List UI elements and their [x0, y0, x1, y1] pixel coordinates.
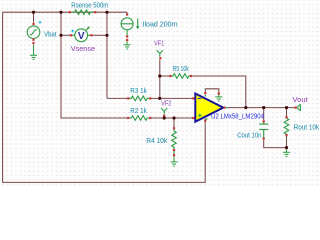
- svg-text:R4 10k: R4 10k: [146, 136, 167, 145]
- svg-text:Cout 10n: Cout 10n: [237, 130, 261, 139]
- svg-text:Vout: Vout: [292, 95, 308, 104]
- svg-text:R3 1k: R3 1k: [130, 86, 147, 95]
- svg-text:Iload 200m: Iload 200m: [143, 20, 178, 29]
- svg-text:Vsense: Vsense: [71, 44, 95, 53]
- svg-text:Rout 10k: Rout 10k: [294, 123, 320, 132]
- svg-text:R5 10k: R5 10k: [173, 64, 190, 73]
- svg-text:VF1: VF1: [154, 39, 164, 48]
- svg-text:R2 1k: R2 1k: [130, 106, 147, 115]
- svg-text:VF2: VF2: [161, 98, 171, 107]
- svg-text:Rsense 500m: Rsense 500m: [71, 0, 108, 9]
- svg-text:V: V: [78, 31, 85, 42]
- svg-text:Vbat: Vbat: [44, 29, 57, 38]
- svg-text:U2 LMx58_LM2904: U2 LMx58_LM2904: [211, 112, 264, 121]
